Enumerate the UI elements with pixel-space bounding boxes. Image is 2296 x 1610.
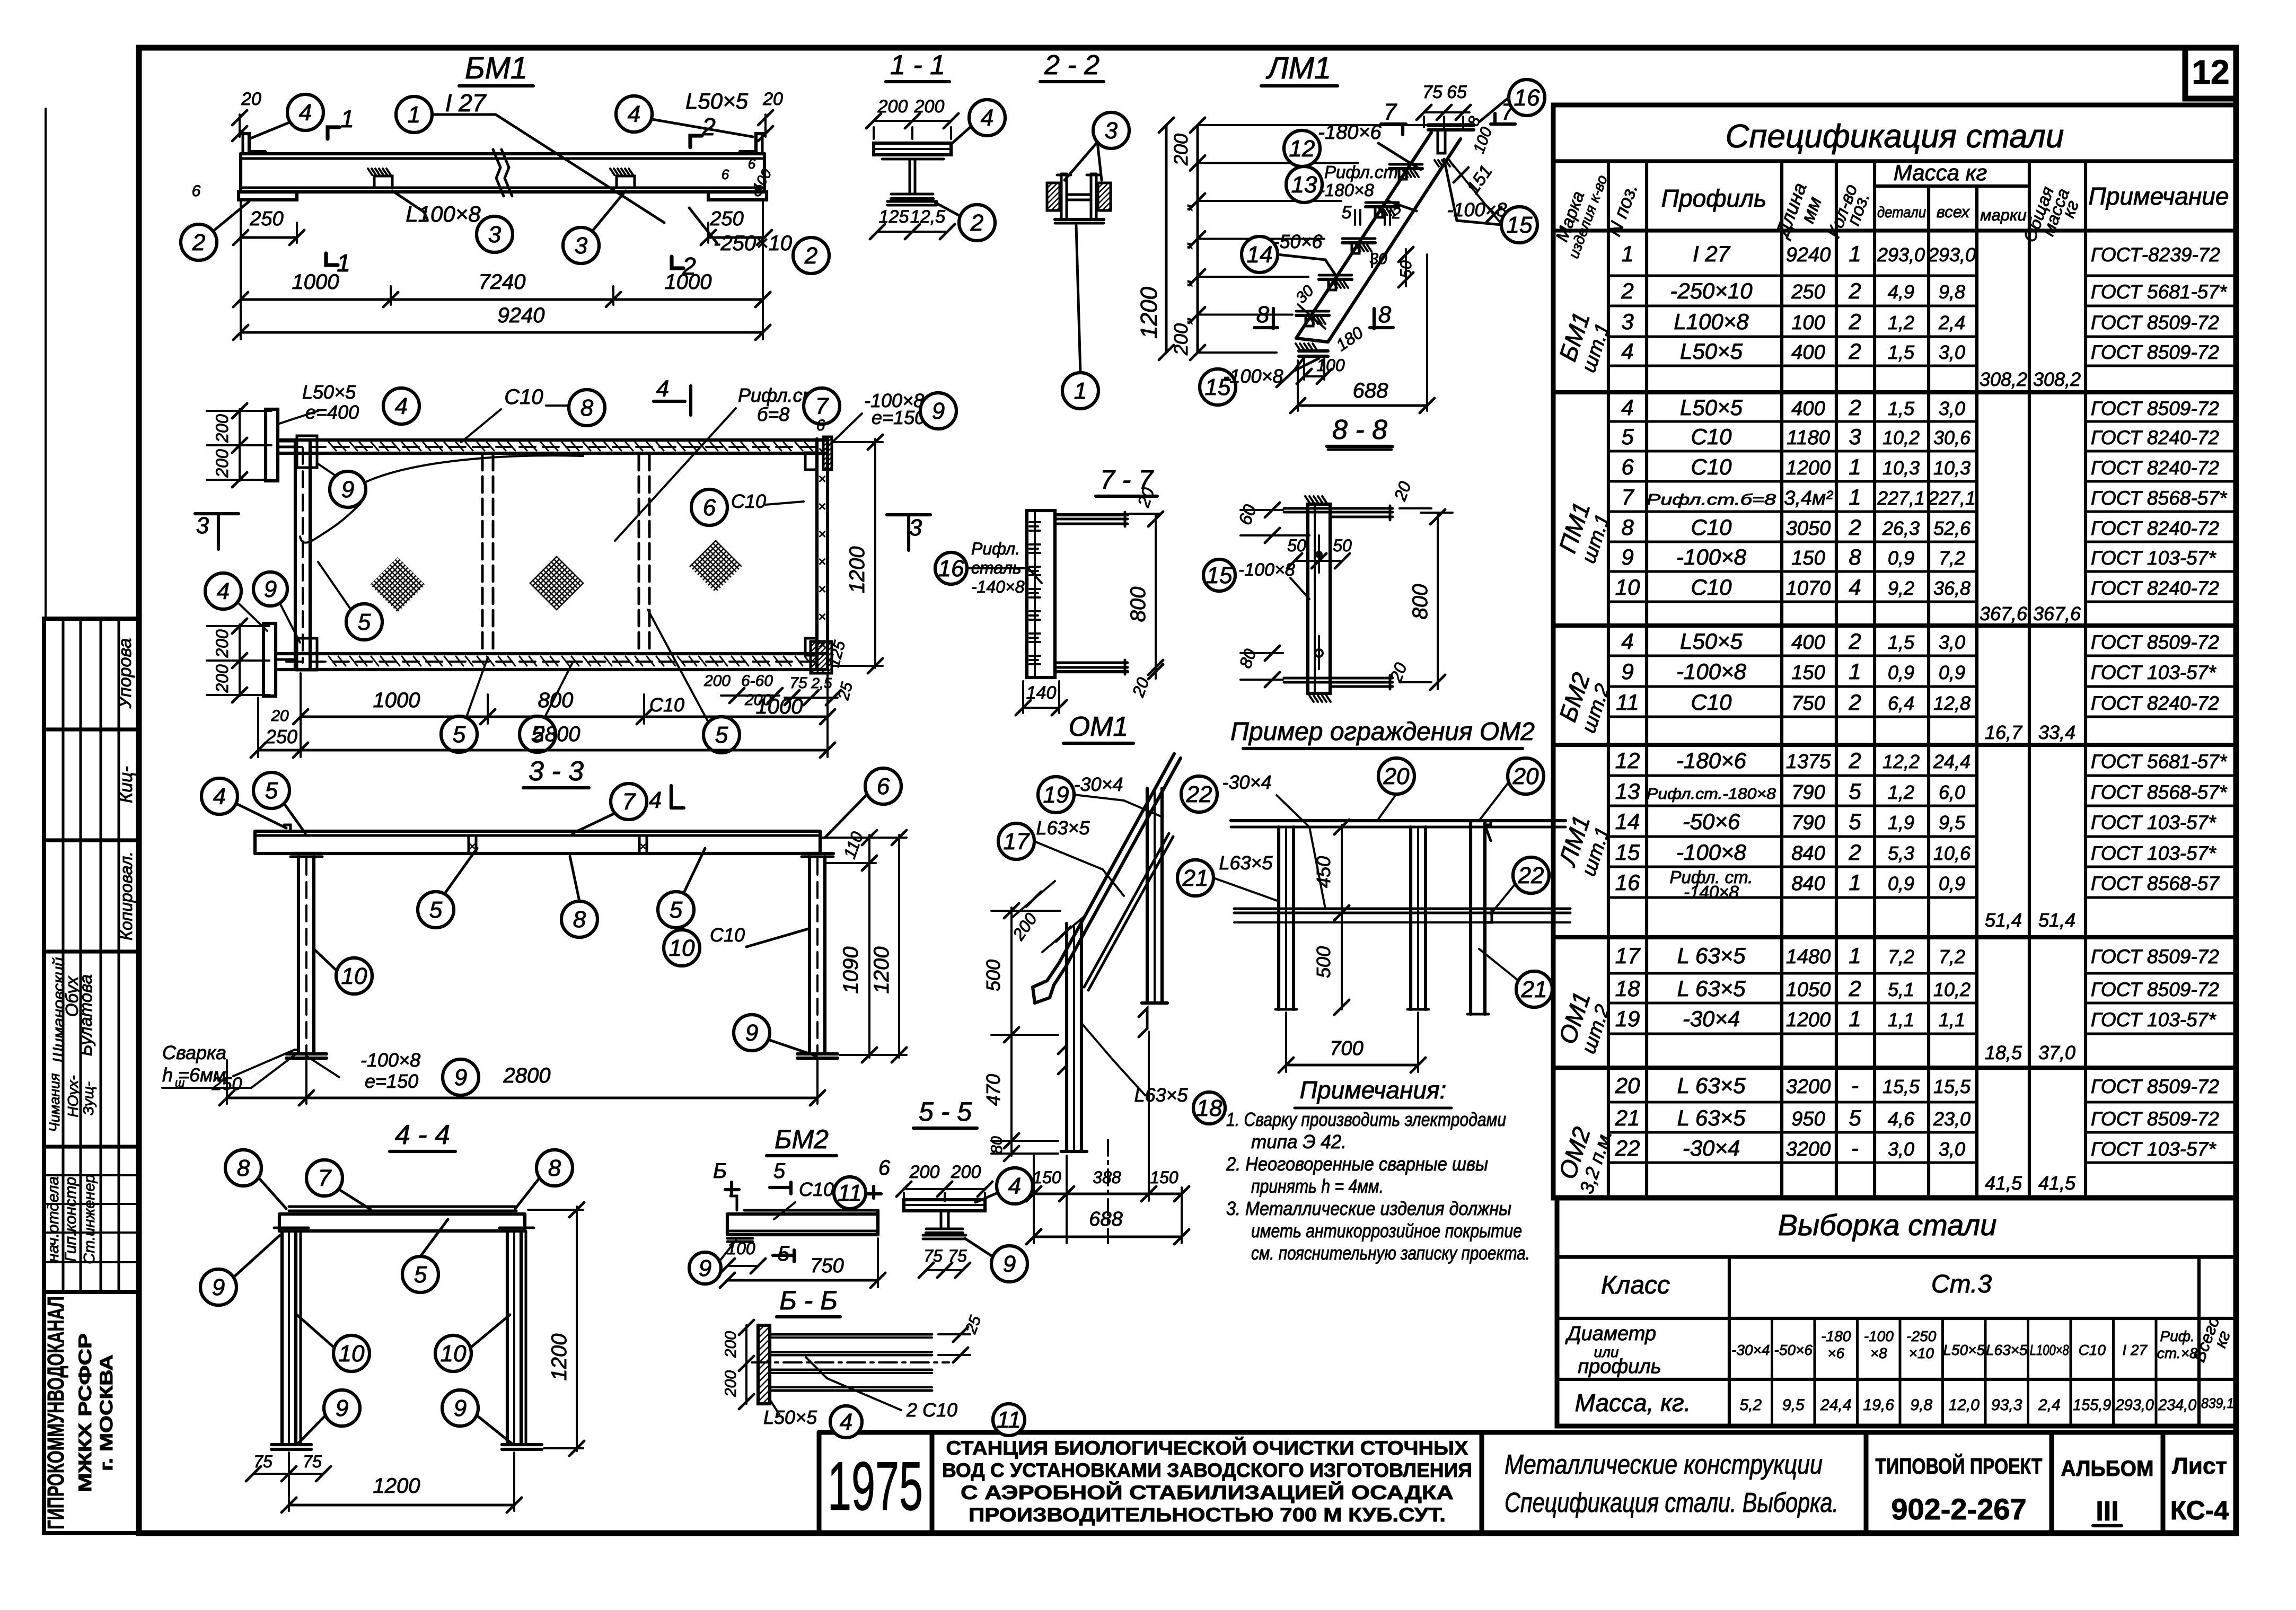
svg-text:9: 9 bbox=[454, 1064, 467, 1090]
svg-text:200: 200 bbox=[914, 96, 945, 117]
svg-text:9: 9 bbox=[264, 576, 277, 602]
svg-text:3,0: 3,0 bbox=[1888, 1138, 1914, 1160]
section 4-4 feet bbox=[271, 1443, 311, 1446]
OM2 side view post bbox=[1469, 821, 1472, 1014]
svg-text:9: 9 bbox=[1003, 1251, 1016, 1277]
svg-text:ОМ1: ОМ1 bbox=[1069, 711, 1129, 742]
svg-text:2: 2 bbox=[1848, 976, 1861, 1001]
dim 250 2800 bottom 3-3 bbox=[227, 1097, 817, 1099]
section 7-7 bottom channel bbox=[1055, 662, 1128, 664]
svg-text:10: 10 bbox=[341, 963, 367, 989]
callout circles 9 bottom 4-4 bbox=[324, 1390, 360, 1426]
svg-text:Диаметр: Диаметр bbox=[1565, 1323, 1656, 1345]
svg-text:7: 7 bbox=[1384, 99, 1397, 125]
svg-text:12,2: 12,2 bbox=[1882, 751, 1920, 772]
callout circle 2 left with leader bbox=[181, 224, 217, 260]
svg-text:4: 4 bbox=[213, 784, 226, 810]
svg-text:Гип.констр: Гип.констр bbox=[62, 1177, 80, 1262]
callout circle 21 left L63x5 bbox=[1177, 860, 1213, 896]
svg-text:11: 11 bbox=[1616, 690, 1639, 715]
svg-text:-100×8: -100×8 bbox=[1223, 365, 1283, 387]
dim 2800 plan bbox=[258, 749, 828, 752]
svg-text:902-2-267: 902-2-267 bbox=[1891, 1492, 2026, 1526]
dim 800 right 8-8 bbox=[1421, 512, 1453, 514]
svg-text:-100×8: -100×8 bbox=[360, 1049, 420, 1071]
callout circle 5 top left bbox=[253, 772, 289, 808]
svg-text:Лист: Лист bbox=[2172, 1453, 2227, 1479]
svg-text:41,5: 41,5 bbox=[2038, 1172, 2076, 1194]
platform PM1 right plate column bbox=[815, 439, 819, 670]
svg-text:293,0: 293,0 bbox=[1928, 244, 1976, 266]
svg-text:9: 9 bbox=[212, 1274, 225, 1300]
stamp signature row lines bbox=[44, 1174, 139, 1176]
svg-text:типа Э 42.: типа Э 42. bbox=[1251, 1131, 1347, 1152]
svg-text:1375: 1375 bbox=[1786, 751, 1831, 773]
svg-text:Масса, кг.: Масса, кг. bbox=[1575, 1389, 1691, 1417]
spec table header bottom line bbox=[1553, 228, 2236, 232]
svg-text:L50×5: L50×5 bbox=[302, 381, 356, 403]
svg-text:-30×4: -30×4 bbox=[1222, 771, 1271, 793]
LM1 steps bbox=[1389, 167, 1422, 170]
svg-text:800: 800 bbox=[538, 689, 574, 712]
svg-text:ГОСТ 8509-72: ГОСТ 8509-72 bbox=[2091, 946, 2219, 967]
svg-text:L50×5: L50×5 bbox=[1943, 1342, 1985, 1358]
svg-text:1: 1 bbox=[1849, 943, 1861, 968]
svg-text:5 - 5: 5 - 5 bbox=[919, 1097, 972, 1127]
svg-text:200: 200 bbox=[213, 414, 232, 443]
svg-text:51,4: 51,4 bbox=[2038, 909, 2075, 931]
svg-text:790: 790 bbox=[1791, 812, 1825, 834]
svg-text:-180×6: -180×6 bbox=[1318, 121, 1382, 144]
vyborka row lines bbox=[1557, 1255, 2236, 1259]
svg-text:80: 80 bbox=[988, 1136, 1006, 1154]
svg-text:C10: C10 bbox=[799, 1178, 834, 1200]
callout circle 8 right 4-4 bbox=[536, 1150, 573, 1186]
svg-text:-30×4: -30×4 bbox=[1683, 1136, 1740, 1160]
svg-text:0,9: 0,9 bbox=[1939, 662, 1965, 683]
svg-text:Зущ-: Зущ- bbox=[80, 1081, 96, 1115]
section 5-5 top plate bbox=[904, 1200, 985, 1211]
BM2 left cleat bbox=[731, 1196, 737, 1210]
svg-text:3: 3 bbox=[909, 515, 922, 541]
svg-text:ГОСТ 103-57*: ГОСТ 103-57* bbox=[2091, 1009, 2216, 1031]
svg-text:ГОСТ 103-57*: ГОСТ 103-57* bbox=[2091, 662, 2216, 683]
section 1-1 top plate bbox=[874, 143, 951, 155]
svg-text:1,9: 1,9 bbox=[1888, 812, 1914, 833]
svg-text:5: 5 bbox=[670, 897, 683, 923]
svg-text:L63×5: L63×5 bbox=[1986, 1342, 2028, 1358]
callout circle 22 right bbox=[1513, 857, 1549, 893]
svg-text:ГОСТ 103-57*: ГОСТ 103-57* bbox=[2091, 547, 2216, 569]
svg-text:Рифл.ст.б=8: Рифл.ст.б=8 bbox=[1647, 491, 1776, 508]
callout circles 5 8 5 below beam bbox=[418, 892, 454, 928]
svg-text:200: 200 bbox=[951, 1162, 981, 1182]
svg-text:2,4: 2,4 bbox=[2038, 1396, 2061, 1414]
svg-text:200: 200 bbox=[213, 629, 232, 658]
svg-text:200: 200 bbox=[877, 96, 908, 117]
plan corner plate top right hatched bbox=[823, 437, 832, 470]
svg-text:4: 4 bbox=[628, 101, 640, 127]
callout circle 15 right -100x8 bbox=[1501, 207, 1537, 243]
svg-text:400: 400 bbox=[1791, 631, 1825, 654]
svg-text:-100×8: -100×8 bbox=[1676, 659, 1747, 684]
svg-text:2: 2 bbox=[970, 210, 983, 236]
svg-text:17: 17 bbox=[1004, 829, 1030, 855]
svg-text:ГОСТ 103-57*: ГОСТ 103-57* bbox=[2091, 812, 2216, 833]
svg-text:7: 7 bbox=[815, 393, 829, 419]
svg-text:227,1: 227,1 bbox=[1928, 487, 1976, 509]
svg-text:нач.отдела: нач.отдела bbox=[45, 1176, 62, 1262]
svg-text:7240: 7240 bbox=[479, 270, 526, 294]
svg-text:65: 65 bbox=[1447, 82, 1467, 102]
plan corner clips bbox=[297, 436, 317, 468]
beam BM1 break marks bbox=[493, 149, 504, 196]
svg-text:9: 9 bbox=[1621, 659, 1633, 684]
svg-text:5: 5 bbox=[429, 897, 443, 923]
svg-text:4: 4 bbox=[1621, 629, 1633, 654]
svg-text:5: 5 bbox=[453, 722, 466, 747]
section B-B channels 2 C10 bbox=[770, 1333, 932, 1336]
svg-text:принять h = 4мм.: принять h = 4мм. bbox=[1251, 1175, 1384, 1197]
svg-text:5,1: 5,1 bbox=[1888, 979, 1914, 1000]
svg-text:Булатова: Булатова bbox=[76, 974, 95, 1056]
svg-text:1,1: 1,1 bbox=[1939, 1009, 1965, 1031]
callout circle 21 right bbox=[1516, 971, 1552, 1007]
svg-text:6: 6 bbox=[877, 773, 890, 799]
svg-text:8: 8 bbox=[573, 907, 586, 932]
svg-text:13: 13 bbox=[1291, 172, 1317, 198]
svg-text:I 27: I 27 bbox=[2122, 1342, 2148, 1358]
svg-text:3: 3 bbox=[1621, 309, 1633, 334]
callout circle 17 L63x5 bbox=[998, 823, 1034, 859]
callout circle 20 left bbox=[1378, 758, 1414, 794]
callout circle 2 section 1-1 bbox=[959, 205, 995, 241]
beam BM1 end plate right -250x10 bbox=[708, 192, 767, 200]
callout circle 19 -30x4 bbox=[1038, 777, 1074, 813]
svg-text:C10: C10 bbox=[649, 694, 684, 716]
svg-text:7: 7 bbox=[1621, 485, 1634, 509]
svg-text:0,9: 0,9 bbox=[1888, 662, 1914, 683]
svg-text:1,5: 1,5 bbox=[1888, 341, 1915, 363]
svg-text:1: 1 bbox=[1849, 659, 1861, 684]
svg-text:-140×8: -140×8 bbox=[971, 577, 1025, 596]
callout circle 4 section 1-1 bbox=[969, 100, 1005, 136]
plan edge weld hatch bottom bbox=[329, 656, 336, 666]
svg-text:8: 8 bbox=[580, 395, 594, 421]
svg-text:ГОСТ-8239-72: ГОСТ-8239-72 bbox=[2091, 244, 2220, 266]
callout circle 20 right bbox=[1508, 758, 1544, 794]
section 7-7 top channel bbox=[1055, 513, 1128, 516]
svg-text:75: 75 bbox=[253, 1452, 272, 1471]
svg-text:2: 2 bbox=[1848, 278, 1861, 303]
svg-text:6: 6 bbox=[754, 182, 763, 200]
beam BM1 end plate left -250x10 bbox=[239, 192, 297, 200]
svg-text:10,6: 10,6 bbox=[1933, 842, 1971, 864]
svg-text:1200: 1200 bbox=[1786, 457, 1831, 479]
svg-text:Пример ограждения ОМ2: Пример ограждения ОМ2 bbox=[1230, 718, 1535, 746]
svg-text:-50×6: -50×6 bbox=[1774, 1342, 1813, 1358]
svg-text:1. Сварку производить электрод: 1. Сварку производить электродами bbox=[1226, 1108, 1506, 1130]
callout circle 5 4-4 bbox=[402, 1256, 438, 1292]
svg-text:-250×10: -250×10 bbox=[1670, 278, 1753, 303]
svg-text:470: 470 bbox=[982, 1074, 1004, 1106]
svg-text:4: 4 bbox=[395, 393, 408, 419]
svg-text:250: 250 bbox=[709, 208, 743, 230]
callout circle 9 5-5 bbox=[991, 1246, 1027, 1282]
svg-text:ГОСТ 8240-72: ГОСТ 8240-72 bbox=[2091, 457, 2219, 479]
svg-text:I 27: I 27 bbox=[445, 89, 487, 117]
svg-text:×: × bbox=[818, 609, 826, 624]
svg-text:19: 19 bbox=[1615, 1006, 1640, 1031]
svg-text:20: 20 bbox=[1383, 763, 1410, 789]
svg-text:1,2: 1,2 bbox=[1888, 781, 1914, 803]
svg-text:×10: ×10 bbox=[1909, 1345, 1934, 1361]
section 3-3 top cleat left bbox=[284, 825, 291, 831]
svg-text:150: 150 bbox=[1791, 547, 1825, 569]
OM1 small bracket left post mid bbox=[1058, 1045, 1067, 1074]
svg-text:ГОСТ 103-57*: ГОСТ 103-57* bbox=[2091, 842, 2216, 864]
svg-text:200: 200 bbox=[213, 664, 232, 693]
svg-text:Профиль: Профиль bbox=[1661, 184, 1767, 212]
svg-text:L63×5: L63×5 bbox=[1134, 1084, 1188, 1106]
svg-text:4: 4 bbox=[649, 787, 662, 813]
svg-text:марки: марки bbox=[1980, 206, 2027, 224]
svg-text:8: 8 bbox=[237, 1155, 250, 1181]
svg-text:9: 9 bbox=[932, 398, 945, 424]
svg-text:50: 50 bbox=[1287, 536, 1306, 555]
callout circle 22 left -30x4 bbox=[1181, 776, 1217, 812]
OM2 side view mid tab bbox=[1485, 909, 1492, 922]
svg-text:234,0: 234,0 bbox=[2158, 1396, 2196, 1414]
svg-text:5,3: 5,3 bbox=[1888, 842, 1914, 864]
svg-text:2: 2 bbox=[1848, 840, 1861, 865]
svg-text:9,8: 9,8 bbox=[1910, 1396, 1932, 1414]
svg-text:41,5: 41,5 bbox=[1985, 1172, 2022, 1194]
svg-text:36,8: 36,8 bbox=[1933, 577, 1970, 599]
svg-text:e=150: e=150 bbox=[872, 407, 925, 428]
plan left bracket bottom bbox=[263, 623, 276, 696]
svg-text:5: 5 bbox=[1342, 203, 1352, 223]
svg-text:3: 3 bbox=[1849, 424, 1861, 449]
OM2 middle rail -30x4 bbox=[1234, 908, 1570, 910]
svg-text:500: 500 bbox=[1313, 946, 1334, 978]
svg-text:155,9: 155,9 bbox=[2073, 1396, 2111, 1414]
svg-text:Спецификация стали. Выборка.: Спецификация стали. Выборка. bbox=[1505, 1488, 1838, 1518]
OM2 top rail L63x5 bbox=[1231, 819, 1565, 822]
svg-text:26,3: 26,3 bbox=[1882, 517, 1920, 539]
callout circle 4 section 3-3 bbox=[201, 778, 237, 814]
svg-text:5: 5 bbox=[414, 1262, 427, 1288]
svg-text:ГОСТ 8509-72: ГОСТ 8509-72 bbox=[2091, 1076, 2219, 1097]
svg-text:10: 10 bbox=[441, 1341, 467, 1367]
svg-text:22: 22 bbox=[1615, 1136, 1640, 1160]
svg-text:688: 688 bbox=[1089, 1208, 1122, 1230]
svg-text:C10: C10 bbox=[2079, 1342, 2106, 1358]
callout circle 16 LM1 bbox=[1509, 80, 1545, 116]
svg-text:ЛМ1: ЛМ1 bbox=[1265, 51, 1331, 85]
svg-text:C10: C10 bbox=[1691, 575, 1732, 600]
callout circle 9 top left inner with wavy leaders bbox=[330, 471, 366, 507]
svg-text:2. Неоговоренные сварные швы: 2. Неоговоренные сварные швы bbox=[1226, 1153, 1488, 1175]
svg-text:-30×4: -30×4 bbox=[1731, 1342, 1770, 1358]
svg-text:-30×4: -30×4 bbox=[1683, 1006, 1740, 1031]
svg-text:3: 3 bbox=[1105, 118, 1118, 144]
svg-text:18,5: 18,5 bbox=[1985, 1042, 2022, 1063]
callout circle 4 bottom left bbox=[205, 573, 241, 609]
beam BM1 I27 girder outline bbox=[241, 152, 764, 155]
svg-text:21: 21 bbox=[1615, 1105, 1640, 1130]
svg-text:Рифл.ст.-180×8: Рифл.ст.-180×8 bbox=[1647, 786, 1776, 803]
svg-text:75: 75 bbox=[1422, 82, 1442, 102]
svg-text:5: 5 bbox=[1849, 809, 1861, 834]
svg-text:Ст.3: Ст.3 bbox=[1931, 1270, 1992, 1298]
dim 1200 right 4-4 bbox=[576, 1207, 578, 1451]
svg-text:7: 7 bbox=[318, 1165, 332, 1191]
svg-text:L 63×5: L 63×5 bbox=[1677, 943, 1746, 968]
dim 688 bbox=[1298, 404, 1427, 407]
svg-text:24,4: 24,4 bbox=[1820, 1396, 1851, 1414]
svg-text:1200: 1200 bbox=[1786, 1009, 1831, 1031]
dim 140 below plate bbox=[1023, 707, 1059, 709]
svg-text:200: 200 bbox=[1170, 323, 1192, 356]
svg-text:ТИПОВОЙ ПРОЕКТ: ТИПОВОЙ ПРОЕКТ bbox=[1876, 1453, 2043, 1479]
section 5-5 base bbox=[923, 1234, 966, 1237]
svg-text:×: × bbox=[818, 553, 826, 569]
svg-text:ГОСТ 8509-72: ГОСТ 8509-72 bbox=[2091, 631, 2219, 653]
callout circle 8 left 4-4 bbox=[225, 1150, 261, 1186]
svg-text:Сварка: Сварка bbox=[162, 1042, 226, 1063]
svg-text:75: 75 bbox=[303, 1452, 322, 1471]
LM1 top support plate bbox=[1428, 123, 1474, 127]
spec table row lines bbox=[1608, 275, 1977, 277]
svg-text:12: 12 bbox=[1289, 136, 1315, 162]
svg-text:308,2: 308,2 bbox=[1980, 368, 2027, 390]
svg-text:13: 13 bbox=[1615, 779, 1640, 804]
svg-text:C10: C10 bbox=[1691, 454, 1732, 479]
svg-text:2,5: 2,5 bbox=[811, 675, 832, 691]
callout circle 16 rifl stal -140x8 bbox=[935, 552, 967, 584]
svg-text:2,4: 2,4 bbox=[1938, 312, 1965, 333]
svg-text:4: 4 bbox=[299, 100, 312, 126]
svg-text:г. МОСКВА: г. МОСКВА bbox=[96, 1354, 117, 1471]
OM2 post 1 bbox=[1277, 827, 1280, 1009]
svg-text:БМ2: БМ2 bbox=[775, 1124, 829, 1154]
svg-text:52,6: 52,6 bbox=[1933, 517, 1971, 539]
callout circle 1 I27 bbox=[396, 96, 432, 133]
svg-text:„: „ bbox=[1171, 241, 1194, 249]
svg-text:400: 400 bbox=[1791, 341, 1825, 364]
svg-text:1000: 1000 bbox=[756, 695, 803, 718]
svg-text:5: 5 bbox=[265, 778, 278, 804]
svg-text:1: 1 bbox=[340, 105, 354, 133]
svg-text:7: 7 bbox=[622, 789, 636, 815]
platform PM1 plan bottom channel bbox=[278, 652, 828, 655]
svg-text:1975: 1975 bbox=[828, 1447, 923, 1525]
beam BM1 top cleat left L50x5 bbox=[242, 134, 265, 152]
svg-text:15: 15 bbox=[1507, 212, 1533, 238]
callout circle 6 C10 right bbox=[691, 489, 727, 525]
OM1 vertical dims 500 470 80 bbox=[1010, 908, 1013, 1156]
svg-text:75: 75 bbox=[948, 1246, 967, 1265]
svg-text:I 27: I 27 bbox=[1693, 241, 1731, 266]
svg-text:Киц-: Киц- bbox=[116, 766, 136, 803]
svg-text:10: 10 bbox=[339, 1341, 365, 1367]
svg-text:e=150: e=150 bbox=[365, 1070, 418, 1092]
OM1 dim 688 bbox=[1034, 1236, 1182, 1238]
svg-text:9,8: 9,8 bbox=[1939, 281, 1965, 303]
svg-text:400: 400 bbox=[1791, 398, 1825, 420]
svg-text:10,2: 10,2 bbox=[1882, 427, 1920, 448]
svg-text:10,3: 10,3 bbox=[1882, 457, 1920, 479]
svg-text:100: 100 bbox=[1316, 356, 1345, 375]
svg-text:9240: 9240 bbox=[1786, 244, 1831, 266]
BM2 beam bbox=[744, 1209, 878, 1212]
svg-text:2: 2 bbox=[1848, 629, 1861, 654]
svg-text:6: 6 bbox=[816, 417, 825, 434]
svg-text:9: 9 bbox=[454, 1395, 467, 1421]
svg-text:L50×5: L50×5 bbox=[1680, 339, 1743, 364]
svg-text:2800: 2800 bbox=[503, 1064, 551, 1087]
svg-text:ГОСТ 5681-57*: ГОСТ 5681-57* bbox=[2091, 281, 2228, 303]
section 4-4 leg caps bbox=[274, 1227, 309, 1229]
svg-text:L50×5: L50×5 bbox=[763, 1406, 817, 1428]
svg-text:L100×8: L100×8 bbox=[1674, 309, 1749, 334]
svg-text:Спецификация стали: Спецификация стали bbox=[1726, 118, 2064, 155]
svg-text:3: 3 bbox=[196, 513, 209, 539]
svg-text:8: 8 bbox=[1378, 302, 1392, 328]
svg-text:950: 950 bbox=[1791, 1108, 1825, 1130]
svg-text:СТАНЦИЯ БИОЛОГИЧЕСКОЙ ОЧИСТК: СТАНЦИЯ БИОЛОГИЧЕСКОЙ ОЧИСТКИ СТОЧНЫХ bbox=[946, 1437, 1468, 1459]
svg-text:ГОСТ 8240-72: ГОСТ 8240-72 bbox=[2091, 517, 2219, 539]
svg-text:6: 6 bbox=[1621, 454, 1634, 479]
svg-text:293,0: 293,0 bbox=[2115, 1396, 2154, 1414]
svg-text:840: 840 bbox=[1791, 842, 1825, 865]
svg-text:1200: 1200 bbox=[846, 547, 869, 594]
svg-text:688: 688 bbox=[1353, 379, 1388, 402]
svg-text:2: 2 bbox=[1848, 748, 1861, 773]
section 7-7 vertical plate bbox=[1027, 511, 1055, 678]
svg-text:21: 21 bbox=[1182, 865, 1209, 891]
svg-text:5: 5 bbox=[1621, 424, 1634, 449]
svg-text:-250×10: -250×10 bbox=[714, 232, 792, 255]
svg-text:9,5: 9,5 bbox=[1782, 1396, 1805, 1414]
svg-text:3: 3 bbox=[575, 233, 588, 259]
section 3-3 right leg bbox=[808, 857, 811, 1054]
svg-text:0,9: 0,9 bbox=[1888, 547, 1914, 569]
OM1 handrail -30x4 bbox=[1033, 754, 1174, 987]
svg-text:250: 250 bbox=[265, 726, 297, 747]
plan middle channel dividers dashed bbox=[481, 454, 484, 653]
svg-text:×6: ×6 bbox=[1827, 1345, 1844, 1361]
callout circle 4 5-5 bbox=[997, 1168, 1033, 1204]
svg-text:3,0: 3,0 bbox=[1939, 631, 1965, 653]
svg-text:C10: C10 bbox=[504, 385, 543, 409]
svg-text:1 - 1: 1 - 1 bbox=[890, 50, 945, 81]
OM1 right post L63x5 bbox=[1146, 788, 1149, 1003]
svg-text:9: 9 bbox=[745, 1020, 758, 1046]
svg-text:C10: C10 bbox=[1691, 690, 1732, 715]
svg-text:1: 1 bbox=[1849, 485, 1861, 509]
svg-text:200: 200 bbox=[213, 449, 232, 478]
svg-text:11: 11 bbox=[997, 1407, 1021, 1433]
plan left bracket top L50x5 bbox=[266, 409, 278, 481]
plan corner plate bottom right hatched bbox=[811, 641, 832, 673]
svg-text:2: 2 bbox=[1848, 515, 1861, 540]
svg-text:75: 75 bbox=[789, 674, 807, 692]
svg-text:17: 17 bbox=[1615, 943, 1641, 968]
svg-text:9,2: 9,2 bbox=[1888, 577, 1914, 599]
svg-text:367,6: 367,6 bbox=[2033, 603, 2081, 624]
